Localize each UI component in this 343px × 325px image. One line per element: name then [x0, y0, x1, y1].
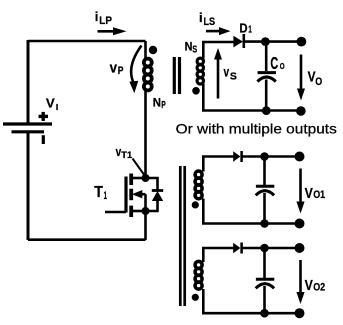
svg-text:C: C: [270, 53, 278, 73]
wire bottom rail: [28, 238, 146, 241]
svg-text:LS: LS: [204, 16, 216, 28]
svg-text:Or with multiple outputs: Or with multiple outputs: [176, 122, 337, 137]
terminal node out2 minus: [295, 308, 305, 318]
winding 3 wire top: [202, 248, 205, 262]
battery plus sign: [39, 112, 49, 121]
phase dot winding 3: [192, 294, 199, 301]
battery V_I: [3, 124, 52, 132]
wire bottom rail out2: [202, 312, 300, 315]
svg-text:T1: T1: [121, 150, 132, 160]
label N_P: [153, 96, 166, 112]
output circuit 1: [192, 151, 305, 229]
source node dot: [142, 207, 150, 215]
current arrow i_LS: [206, 27, 231, 35]
svg-text:O: O: [315, 76, 322, 88]
wire after diode: [244, 40, 302, 43]
svg-text:S: S: [192, 45, 197, 56]
gate wire: [105, 211, 126, 214]
voltage arrow v_S (up): [214, 48, 222, 99]
gate bar: [124, 177, 127, 213]
secondary winding wire bottom: [202, 84, 205, 111]
svg-text:V: V: [46, 95, 55, 110]
node junction out1 bottom: [260, 219, 269, 228]
diode out1: [233, 151, 240, 161]
voltage arrow V_O1: [299, 169, 302, 203]
terminal node out1 plus: [295, 152, 305, 162]
svg-text:1: 1: [104, 190, 107, 202]
terminal node V_O minus: [296, 106, 306, 116]
wire top rail out2: [202, 247, 234, 250]
label V_I: [46, 95, 58, 111]
wire after diode out1: [242, 155, 300, 158]
winding 2 wire bottom: [202, 199, 205, 224]
transistor T1 MOSFET: [105, 174, 163, 241]
svg-text:v: v: [110, 60, 117, 76]
drain lead: [131, 177, 145, 180]
svg-text:V: V: [305, 185, 313, 202]
svg-text:O1: O1: [313, 189, 325, 201]
wire bottom rail out1: [202, 222, 300, 225]
wire below battery: [27, 132, 30, 240]
node junction top (cap tap): [261, 37, 270, 46]
terminal node V_O plus: [297, 37, 307, 47]
label V_O1: [305, 185, 326, 202]
label v_P: [110, 60, 124, 77]
phase dot winding 2: [192, 201, 199, 208]
svg-text:i: i: [95, 9, 99, 24]
winding 2 wire top: [202, 157, 205, 172]
svg-text:S: S: [230, 72, 237, 83]
svg-text:O: O: [280, 61, 285, 71]
phase dot secondary: [192, 87, 200, 95]
label V_O2: [305, 277, 326, 294]
diode out2: [233, 243, 240, 253]
source wire down: [144, 211, 147, 240]
svg-text:LP: LP: [99, 15, 112, 27]
node junction bottom (cap): [262, 106, 271, 115]
winding 3 coil: [195, 261, 202, 289]
svg-text:I: I: [56, 102, 58, 112]
svg-text:T: T: [94, 184, 103, 201]
winding 3 wire bottom: [202, 289, 205, 313]
wire secondary bottom rail: [202, 109, 301, 112]
svg-text:D: D: [239, 20, 248, 35]
transformer core top: [174, 57, 179, 94]
body diode: [146, 178, 158, 191]
phase dot primary: [149, 46, 157, 54]
node junction out2 bottom: [260, 309, 269, 318]
winding 2 coil: [195, 171, 202, 199]
diode D1: [233, 34, 243, 48]
wire secondary top rail: [202, 41, 234, 44]
label v_S: [224, 64, 238, 82]
primary winding N_P wire top: [144, 41, 147, 60]
label C_O: [270, 53, 284, 73]
node junction out2 top: [260, 244, 269, 253]
label V_O: [308, 69, 323, 88]
capacitor out2: [263, 248, 266, 278]
voltage arrow V_O2: [299, 260, 302, 293]
voltage arrow V_O (down): [297, 55, 305, 101]
pointer line v_T1: [133, 159, 146, 177]
svg-text:N: N: [185, 40, 193, 54]
label T_1: [94, 184, 107, 202]
label i_LP: [95, 9, 112, 27]
primary winding wire bottom (drain connection): [144, 90, 147, 178]
wire top rail out1: [202, 155, 234, 158]
node junction out1 top: [260, 152, 269, 161]
capacitor C_O: [257, 42, 276, 111]
transformer core bottom: [180, 166, 184, 306]
current arrow i_LP: [98, 27, 127, 35]
svg-text:P: P: [161, 100, 166, 111]
primary winding N_P coil: [144, 59, 152, 91]
svg-text:V: V: [305, 277, 313, 294]
source lead: [131, 210, 145, 213]
battery minus tick: [42, 135, 45, 144]
secondary winding N_S wire top: [202, 42, 205, 59]
label D_1: [239, 20, 252, 35]
svg-text:v: v: [224, 64, 230, 79]
svg-text:1: 1: [248, 25, 252, 36]
label v_T1: [116, 144, 133, 160]
terminal node out1 minus: [295, 219, 305, 229]
wire top rail primary: [28, 40, 146, 43]
svg-text:P: P: [118, 65, 124, 77]
svg-text:i: i: [199, 10, 203, 25]
svg-text:N: N: [153, 96, 161, 110]
wire after diode out2: [242, 247, 300, 250]
label i_LS: [199, 10, 215, 28]
body lead with arrow: [138, 193, 146, 196]
label N_S: [185, 40, 198, 56]
channel segments: [129, 174, 133, 218]
voltage arrow v_P (curved): [129, 46, 141, 94]
wire left rail: [27, 40, 30, 123]
secondary winding N_S coil: [197, 58, 203, 84]
output circuit 2: [192, 243, 305, 319]
svg-text:O2: O2: [313, 281, 325, 293]
terminal node out2 plus: [295, 243, 305, 253]
capacitor out1: [263, 157, 266, 186]
drain node dot: [142, 174, 150, 182]
